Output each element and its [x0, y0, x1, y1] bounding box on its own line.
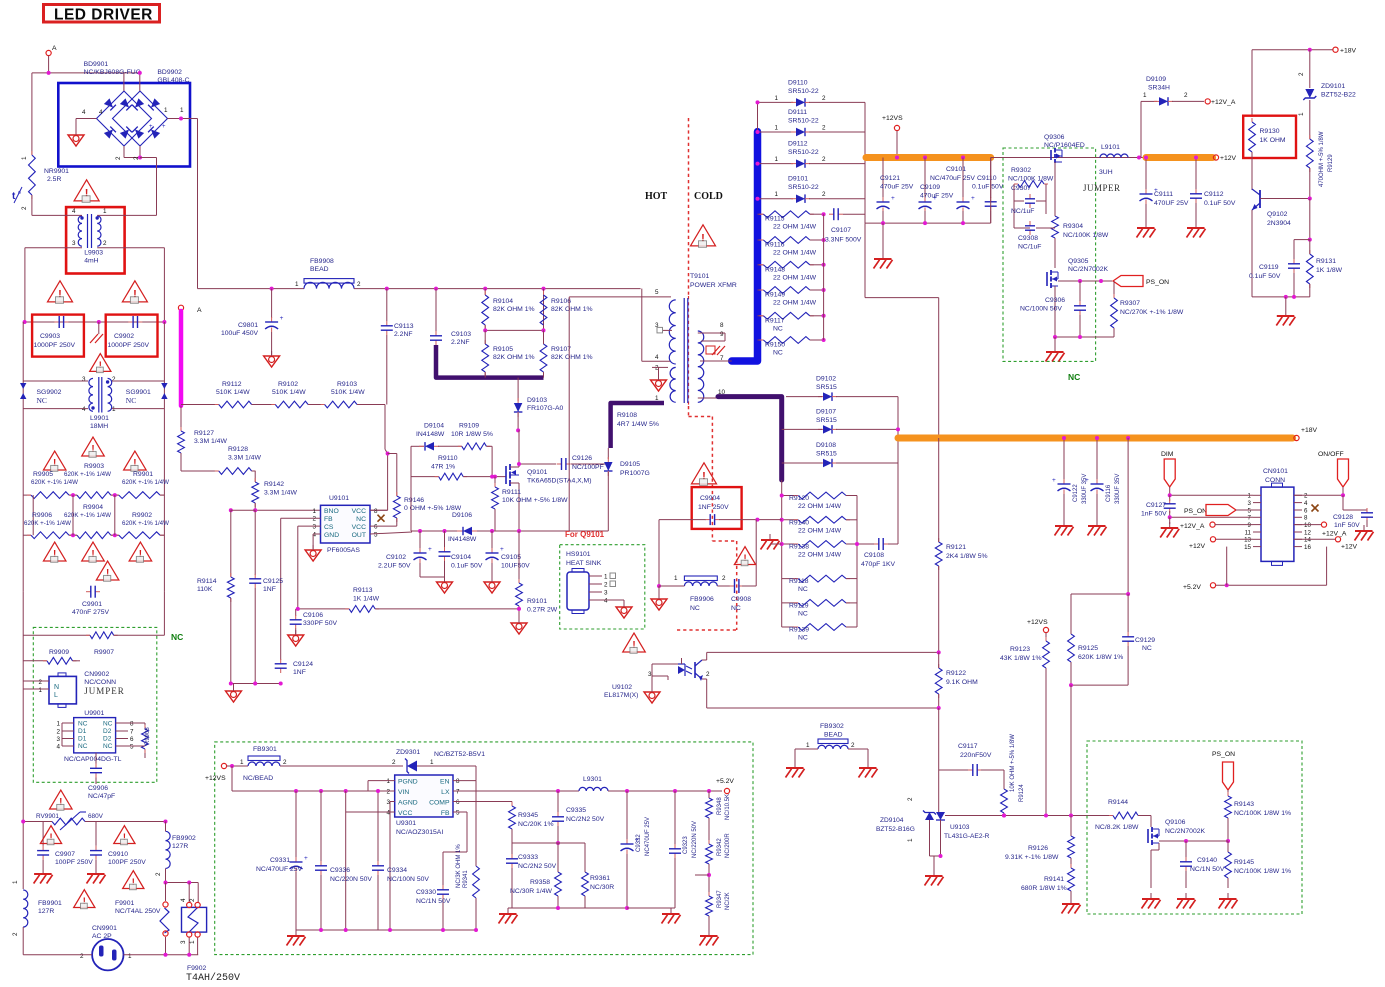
svg-text:1NF 250V: 1NF 250V — [698, 504, 729, 511]
wire — [695, 874, 709, 876]
wire — [706, 652, 708, 660]
wire — [758, 163, 794, 165]
wire q9106 row — [1159, 840, 1228, 842]
svg-text:+12V_A: +12V_A — [1211, 99, 1236, 106]
wire — [252, 470, 256, 472]
resistor R9102 — [271, 404, 275, 406]
wire q9102 gnd — [1252, 296, 1310, 298]
resistor R9106 — [543, 291, 545, 295]
resistor R9105 — [484, 340, 486, 344]
svg-text:R9129: R9129 — [1328, 154, 1334, 172]
wire — [810, 239, 824, 241]
wire — [23, 660, 47, 662]
svg-text:1: 1 — [386, 778, 390, 785]
svg-text:1nF 50V: 1nF 50V — [1141, 511, 1167, 518]
svg-text:U9103: U9103 — [950, 824, 970, 831]
junction — [47, 71, 51, 75]
svg-text:1K 1/8W: 1K 1/8W — [1316, 267, 1343, 274]
junction — [388, 928, 392, 932]
svg-text:FR107G-A0: FR107G-A0 — [527, 405, 563, 412]
wire pin7 — [700, 360, 732, 362]
svg-text:C9334: C9334 — [387, 867, 407, 874]
wire — [1054, 286, 1056, 337]
svg-text:SR510-22: SR510-22 — [788, 184, 819, 191]
diode D9107 — [823, 425, 832, 434]
junction — [756, 162, 760, 166]
junction — [961, 156, 965, 160]
ground T9101 pin2 — [651, 380, 667, 391]
svg-text:BNO: BNO — [324, 508, 339, 515]
wire — [484, 325, 486, 330]
wire c9307 r — [1045, 184, 1047, 214]
svg-text:1NF: 1NF — [293, 669, 306, 676]
capacitor C9307 — [1029, 194, 1031, 199]
wire — [1309, 199, 1311, 240]
svg-text:7: 7 — [1248, 515, 1252, 522]
wire — [758, 198, 794, 200]
wire — [386, 335, 388, 405]
svg-text:U9102: U9102 — [612, 684, 632, 691]
junction — [253, 508, 257, 512]
resistor R9347 — [708, 892, 710, 896]
wire — [197, 883, 199, 903]
wire — [73, 660, 81, 662]
wire opto row1 — [707, 651, 939, 653]
junction — [822, 314, 826, 318]
svg-text:2: 2 — [1304, 493, 1308, 500]
wire cn pin — [1294, 509, 1302, 511]
wire — [377, 791, 379, 862]
connector arrow ONOFF — [1338, 459, 1349, 487]
svg-text:C9335: C9335 — [566, 807, 586, 814]
wire — [370, 509, 388, 511]
wire — [864, 223, 866, 298]
wire — [396, 454, 398, 497]
wire — [1169, 495, 1171, 501]
svg-text:C9107: C9107 — [831, 227, 851, 234]
wire — [836, 428, 898, 430]
svg-text:TK6A65D(STA4,X,M): TK6A65D(STA4,X,M) — [527, 478, 591, 485]
svg-text:2.2NF: 2.2NF — [394, 331, 413, 338]
wire — [857, 543, 876, 545]
wire — [1285, 297, 1287, 310]
wire — [1293, 273, 1295, 297]
svg-text:1: 1 — [128, 953, 132, 960]
wire — [494, 477, 496, 487]
capacitor C9126 — [557, 463, 562, 465]
wire — [809, 101, 865, 103]
svg-text:1: 1 — [1248, 493, 1252, 500]
wire — [1150, 850, 1152, 888]
wire — [346, 811, 395, 813]
junction — [162, 320, 166, 324]
inductor L9903 right — [97, 216, 101, 246]
junction — [822, 263, 826, 267]
wire — [61, 723, 63, 746]
mosfet Q9306 — [1050, 150, 1052, 160]
svg-text:L9101: L9101 — [1101, 144, 1120, 151]
wire aux winding — [568, 297, 570, 531]
warning symbol w12 — [74, 890, 95, 908]
wire — [411, 476, 439, 478]
svg-text:NC/30R: NC/30R — [590, 884, 614, 891]
svg-text:R9904: R9904 — [83, 504, 103, 511]
wire — [31, 73, 33, 155]
wire — [557, 896, 559, 908]
svg-text:4: 4 — [82, 109, 86, 116]
resistor R9144 — [1109, 815, 1113, 817]
svg-text:D9107: D9107 — [816, 408, 836, 415]
wire — [1251, 50, 1253, 117]
wire — [1342, 495, 1344, 510]
svg-text:620K +-1% 1/4W: 620K +-1% 1/4W — [64, 512, 111, 519]
wire — [491, 563, 493, 581]
svg-text:100PF 250V: 100PF 250V — [55, 859, 93, 866]
svg-text:1: 1 — [774, 125, 778, 132]
wire U9901 pin — [62, 745, 74, 747]
wire — [1294, 239, 1310, 241]
svg-text:NC/2N7002K: NC/2N7002K — [1068, 266, 1109, 273]
svg-text:NC/470UF 25V: NC/470UF 25V — [256, 866, 303, 873]
svg-text:L9903: L9903 — [84, 250, 103, 257]
wire — [810, 289, 824, 291]
power node f2d — [195, 932, 200, 937]
wire — [543, 372, 545, 378]
wire cn pin — [1294, 538, 1302, 540]
resistor R9341 — [475, 862, 477, 866]
ground q9305 — [1054, 346, 1056, 352]
svg-text:C9125: C9125 — [263, 578, 283, 585]
wire — [231, 766, 233, 791]
ground C9105 gnd — [484, 582, 500, 593]
svg-text:C9323: C9323 — [683, 836, 689, 854]
L9903 phase dots — [80, 216, 83, 219]
wire — [23, 380, 88, 382]
capacitor C9116 — [1096, 479, 1098, 484]
orange bus +12VS — [866, 154, 991, 161]
ground r9138 — [769, 534, 771, 540]
svg-text:3: 3 — [56, 736, 60, 743]
wire — [1309, 284, 1311, 297]
wire — [271, 332, 273, 355]
svg-text:C9901: C9901 — [82, 601, 102, 608]
resistor R9904 — [73, 534, 77, 536]
no-connect X cn pin6 — [1312, 505, 1319, 512]
svg-text:4R7 1/4W 5%: 4R7 1/4W 5% — [617, 421, 659, 428]
junction — [1144, 156, 1148, 160]
resistor R9906 — [27, 534, 31, 536]
junction — [556, 789, 560, 793]
wire pin10 — [698, 397, 718, 399]
svg-text:C9119: C9119 — [1259, 264, 1279, 271]
wire — [1096, 438, 1098, 480]
wire — [1226, 547, 1228, 586]
wire — [165, 869, 167, 883]
connector arrow DIM — [1164, 459, 1175, 487]
svg-text:PS_ON: PS_ON — [1184, 508, 1207, 515]
wire lx — [453, 790, 579, 792]
bridge diodes BD9901 — [97, 91, 152, 146]
svg-text:510K 1/4W: 510K 1/4W — [331, 389, 365, 396]
junction — [23, 320, 27, 324]
warning symbol c9904 — [692, 463, 717, 484]
svg-text:2: 2 — [907, 797, 914, 801]
resistor R9122 — [938, 664, 940, 668]
pin3 nc stub — [662, 329, 672, 331]
svg-text:+12VS: +12VS — [205, 775, 226, 782]
connector arrow PS_ON cn — [1206, 505, 1236, 516]
wire right rail — [163, 322, 165, 592]
svg-text:6: 6 — [130, 736, 134, 743]
svg-text:2N3904: 2N3904 — [1267, 220, 1291, 227]
wire — [31, 195, 33, 215]
wire — [607, 472, 609, 531]
power node +12V r — [1335, 537, 1340, 542]
wire cn pin — [1294, 524, 1302, 526]
shunt ref U9103 — [936, 812, 945, 820]
svg-text:R9142: R9142 — [264, 481, 284, 488]
wire — [111, 494, 119, 496]
box green dashed PS_ON box — [1087, 741, 1302, 914]
wire to D9103 — [517, 378, 519, 401]
resistor R9141 — [1070, 864, 1072, 868]
wire bridge ac2 — [139, 73, 141, 91]
junction — [625, 789, 629, 793]
wire — [843, 213, 865, 215]
svg-text:R9148: R9148 — [765, 266, 785, 273]
no-connect X pin7 — [378, 515, 385, 522]
svg-text:R9903: R9903 — [84, 463, 104, 470]
L9901 phase dots — [91, 406, 94, 409]
junction — [490, 475, 494, 479]
power node +12V_A l — [1210, 522, 1215, 527]
ground r9145 — [1227, 893, 1229, 899]
svg-text:FB9302: FB9302 — [820, 723, 844, 730]
svg-text:10: 10 — [1304, 522, 1311, 529]
svg-text:NC/100K 1/8W 1%: NC/100K 1/8W 1% — [1234, 810, 1291, 817]
wire — [1014, 227, 1030, 229]
wire — [717, 585, 731, 587]
wire — [1079, 315, 1081, 337]
svg-text:BEAD: BEAD — [824, 732, 843, 739]
wire — [659, 585, 684, 587]
svg-text:NC: NC — [103, 743, 113, 750]
wire R9106 — [543, 289, 545, 331]
junction — [1126, 592, 1130, 596]
svg-text:R9348: R9348 — [717, 797, 723, 815]
warning symbol r1 — [82, 437, 105, 456]
svg-text:NC/100PF: NC/100PF — [572, 464, 604, 471]
wire — [846, 578, 857, 580]
wire — [1227, 818, 1229, 841]
wire cap bottom rail — [865, 222, 991, 224]
svg-text:18MH: 18MH — [90, 423, 108, 430]
svg-text:C9129: C9129 — [1135, 637, 1155, 644]
svg-text:+5.2V: +5.2V — [716, 778, 734, 785]
svg-text:10K OHM +-5% 1/8W: 10K OHM +-5% 1/8W — [502, 497, 568, 504]
svg-text:2: 2 — [38, 679, 42, 686]
wire — [708, 916, 710, 930]
junction — [1002, 814, 1006, 818]
svg-text:NC/BZT52-B5V1: NC/BZT52-B5V1 — [434, 751, 485, 758]
svg-text:8: 8 — [374, 508, 378, 515]
svg-text:R9112: R9112 — [222, 381, 242, 388]
wire — [543, 330, 545, 344]
fuse F9901 — [160, 908, 169, 933]
svg-text:1K OHM: 1K OHM — [1260, 137, 1286, 144]
wire — [1014, 200, 1024, 202]
junction — [673, 789, 677, 793]
wire — [1343, 509, 1367, 511]
svg-text:R9149: R9149 — [765, 292, 785, 299]
svg-text:82K OHM 1%: 82K OHM 1% — [551, 354, 593, 361]
svg-text:330UF 35V: 330UF 35V — [1115, 474, 1121, 504]
power node +12V — [1213, 155, 1218, 160]
junction — [187, 881, 191, 885]
svg-text:1: 1 — [112, 406, 116, 413]
wire — [320, 791, 322, 862]
svg-text:HOT: HOT — [645, 191, 668, 202]
warning symbol C9903 — [48, 281, 73, 302]
svg-text:F9901: F9901 — [115, 900, 134, 907]
wire — [929, 828, 931, 856]
connector arrow PS_ON q9305 — [1113, 276, 1143, 287]
ground C9801 — [264, 356, 280, 367]
wire U9901 pin — [116, 730, 128, 732]
wire — [1294, 524, 1321, 526]
wire — [708, 791, 710, 798]
svg-text:4: 4 — [180, 898, 187, 902]
wire — [758, 264, 764, 266]
wire out — [370, 532, 412, 534]
wire — [1293, 240, 1295, 260]
power node +12V_A r — [1321, 522, 1326, 527]
junction — [1078, 279, 1082, 283]
diode D9110 — [796, 98, 805, 107]
junction — [896, 427, 900, 431]
junction — [1308, 238, 1312, 242]
wire — [419, 563, 421, 577]
svg-text:U9301: U9301 — [396, 820, 416, 827]
svg-text:NC/1uF: NC/1uF — [1011, 208, 1034, 215]
diode D9106 — [463, 527, 472, 536]
wire — [254, 588, 256, 684]
power node +12V l — [1210, 537, 1215, 542]
capacitor C9335 — [557, 812, 559, 817]
svg-text:127R: 127R — [172, 843, 188, 850]
svg-text:100uF 450V: 100uF 450V — [221, 330, 259, 337]
svg-text:L9901: L9901 — [90, 415, 109, 422]
wire — [139, 146, 141, 158]
svg-text:R9341: R9341 — [463, 870, 469, 888]
svg-text:10K OHM +-5% 1/8W: 10K OHM +-5% 1/8W — [1010, 734, 1016, 792]
wire — [386, 289, 388, 321]
wire — [295, 872, 297, 930]
wire — [295, 791, 297, 858]
svg-text:NC/470uF 25V: NC/470uF 25V — [930, 175, 975, 182]
svg-text:12: 12 — [1304, 529, 1311, 536]
svg-text:1: 1 — [103, 208, 107, 215]
wire — [475, 766, 477, 781]
junction — [756, 130, 760, 134]
wire — [702, 678, 707, 680]
svg-text:110K: 110K — [197, 586, 213, 593]
junction — [344, 928, 348, 932]
junction — [1126, 436, 1130, 440]
capacitor C9904 — [705, 519, 710, 521]
wire — [163, 248, 165, 322]
purple bus pin10 — [718, 397, 782, 480]
zener ZD9101 — [1305, 89, 1314, 98]
wire — [124, 157, 140, 159]
svg-text:NC/100K 1/8W: NC/100K 1/8W — [1063, 232, 1109, 239]
wire — [1070, 685, 1072, 816]
resistor R9121 — [938, 538, 940, 542]
svg-text:+12V_A: +12V_A — [1322, 531, 1347, 538]
svg-text:R9113: R9113 — [353, 587, 373, 594]
svg-text:NC: NC — [798, 635, 808, 642]
capacitor C9129 — [1127, 632, 1129, 637]
svg-text:D9106: D9106 — [452, 512, 472, 519]
svg-text:C9801: C9801 — [238, 322, 258, 329]
resistor R9127 — [180, 427, 182, 431]
wire — [160, 494, 164, 496]
blue bus secondary — [732, 132, 758, 361]
ground r9347 — [708, 930, 710, 936]
junction — [113, 533, 117, 537]
wire — [280, 765, 403, 767]
svg-text:R9304: R9304 — [1063, 223, 1083, 230]
svg-text:C9308: C9308 — [1018, 235, 1038, 242]
wire — [368, 780, 395, 782]
svg-text:3.3NF 500V: 3.3NF 500V — [825, 237, 862, 244]
svg-text:NC: NC — [690, 605, 700, 612]
svg-text:1: 1 — [56, 721, 60, 728]
wire — [345, 812, 347, 930]
svg-text:NC/1N 50V: NC/1N 50V — [1190, 866, 1225, 873]
junction — [434, 287, 438, 291]
wire — [1227, 878, 1229, 888]
ground q9102 — [1285, 310, 1287, 316]
resistor R9107 — [543, 340, 545, 344]
svg-text:NC/CONN: NC/CONN — [84, 679, 116, 686]
box green dashed HS9101 — [560, 545, 645, 629]
svg-text:IN4148W: IN4148W — [448, 536, 477, 543]
svg-text:D9109: D9109 — [1146, 76, 1166, 83]
ferrite bead FB9906 — [684, 576, 717, 581]
svg-text:5: 5 — [1248, 507, 1252, 514]
capacitor C9119 — [1293, 259, 1295, 264]
resistor R9903 — [73, 494, 77, 496]
wire — [485, 329, 543, 331]
wire — [165, 822, 167, 832]
ground fb9302 l — [794, 762, 796, 768]
wire — [719, 519, 782, 521]
svg-text:R9347: R9347 — [717, 890, 723, 908]
resistor R9130 — [1251, 118, 1253, 122]
wire cn pin — [1253, 524, 1261, 526]
svg-text:U9101: U9101 — [329, 495, 349, 502]
svg-text:C9105: C9105 — [501, 554, 521, 561]
wire — [1070, 891, 1072, 898]
svg-text:R9145: R9145 — [1234, 859, 1254, 866]
wire — [1113, 281, 1115, 298]
svg-text:ZD9104: ZD9104 — [880, 817, 904, 824]
svg-text:T4AH/250V: T4AH/250V — [186, 972, 240, 984]
svg-text:3: 3 — [72, 240, 76, 247]
svg-text:D2: D2 — [103, 736, 112, 743]
svg-text:Q9305: Q9305 — [1068, 258, 1089, 265]
